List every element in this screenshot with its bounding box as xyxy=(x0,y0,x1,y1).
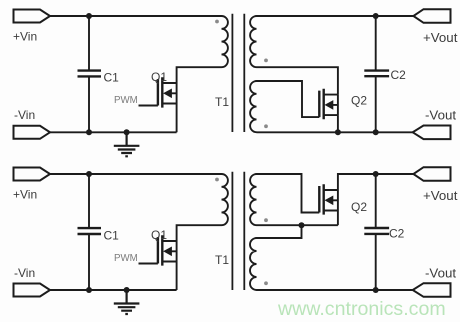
transformer T1 secondary upper winding (bottom) xyxy=(250,174,256,225)
wire +Vin rail (bottom) xyxy=(50,173,222,175)
wire C1 top lead xyxy=(88,16,90,70)
wire Q2 drain to +Vout rail (bottom) xyxy=(338,174,414,190)
wire Q2 source to -Vout rail xyxy=(337,115,339,132)
svg-text:+Vin: +Vin xyxy=(13,187,37,201)
wire secondary lower top to center tap (bottom) xyxy=(257,225,302,238)
wire C2 bottom lead (top) xyxy=(375,76,377,132)
wire +Vin rail (top) xyxy=(50,15,222,17)
junction node ground/-Vin rail (bottom) xyxy=(124,287,130,293)
junction node on +Vin rail (bottom) xyxy=(86,171,92,177)
connector -Vin (top) xyxy=(14,126,51,139)
wire -Vout rail (top) xyxy=(257,131,413,133)
wire Q1 source to -Vin rail xyxy=(176,104,178,133)
transformer T1 secondary lower winding (top) xyxy=(250,81,256,132)
wire T1 primary bottom to Q1 drain xyxy=(177,67,222,83)
transistor Q1 (bottom) xyxy=(158,235,177,265)
phase dot T1 secondary lower (top) xyxy=(264,124,268,128)
svg-text:+Vin: +Vin xyxy=(13,29,37,43)
wire T1 primary bottom to Q1 drain (bottom) xyxy=(177,225,222,241)
wire C2 top lead (bottom) xyxy=(375,174,377,228)
phase dot T1 secondary upper (top) xyxy=(264,59,268,63)
capacitor C1 (bottom) xyxy=(78,228,102,234)
junction node C2/-Vout rail xyxy=(373,129,379,135)
wire T1 secondary lower top to Q2 gate xyxy=(257,81,320,117)
ground symbol (top) xyxy=(114,132,140,156)
transformer T1 secondary upper winding (top) xyxy=(250,16,256,67)
svg-text:T1: T1 xyxy=(215,95,229,109)
svg-text:C2: C2 xyxy=(391,68,407,82)
connector +Vin (bottom) xyxy=(14,168,51,181)
junction node C2/-Vout rail (bottom) xyxy=(373,287,379,293)
svg-text:PWM: PWM xyxy=(114,95,138,106)
phase dot T1 primary (top) xyxy=(215,20,219,24)
capacitor C2 (top) xyxy=(364,71,389,77)
svg-text:PWM: PWM xyxy=(114,253,138,264)
svg-text:C2: C2 xyxy=(389,227,405,241)
phase dot T1 secondary upper (bottom) xyxy=(264,218,268,222)
wire C2 bottom lead (bottom) xyxy=(375,234,377,290)
phase dot T1 secondary lower (bottom) xyxy=(264,281,268,285)
connector -Vin (bottom) xyxy=(14,284,51,297)
svg-text:-Vin: -Vin xyxy=(14,266,35,280)
svg-text:+Vout: +Vout xyxy=(423,30,458,45)
junction node C1/-Vin rail xyxy=(86,129,92,135)
svg-text:Q1: Q1 xyxy=(151,228,167,242)
svg-text:+Vout: +Vout xyxy=(423,188,458,203)
junction node on +Vin rail xyxy=(86,13,92,19)
svg-text:C1: C1 xyxy=(104,229,120,243)
transistor Q1 (top) xyxy=(158,77,177,107)
wire T1 secondary upper bottom to Q2 drain xyxy=(257,67,338,94)
wire -Vin rail (top) xyxy=(50,131,177,133)
wire C1 top lead (bottom) xyxy=(88,174,90,228)
svg-text:-Vout: -Vout xyxy=(425,108,456,123)
connector +Vout (top) xyxy=(413,9,450,23)
wire secondary upper bottom / center tap (bottom) xyxy=(257,224,338,226)
svg-text:Q2: Q2 xyxy=(351,200,367,214)
svg-text:T1: T1 xyxy=(215,253,229,267)
junction node C1/-Vin rail (bottom) xyxy=(86,287,92,293)
phase dot T1 primary (bottom) xyxy=(215,178,219,182)
junction node Q2 source rail xyxy=(335,129,341,135)
transistor Q2 (top) xyxy=(319,89,338,119)
wire Q2 source to winding junction (bottom) xyxy=(337,211,339,226)
junction node C2/+Vout rail (bottom) xyxy=(373,171,379,177)
transformer T1 primary winding (bottom) xyxy=(222,174,228,225)
wire -Vin rail (bottom) xyxy=(50,289,177,291)
svg-text:C1: C1 xyxy=(104,71,120,85)
wire +Vout rail (top) xyxy=(257,15,414,17)
capacitor C1 (top) xyxy=(78,71,102,77)
wire -Vout rail (bottom) xyxy=(257,289,413,291)
svg-text:Q1: Q1 xyxy=(151,70,167,84)
transistor Q2 (bottom) xyxy=(319,184,338,214)
ground symbol (bottom) xyxy=(114,290,140,314)
transformer T1 primary winding (top) xyxy=(222,16,228,67)
svg-text:www.cntronics.com: www.cntronics.com xyxy=(277,298,446,320)
junction node center tap (bottom) xyxy=(299,222,305,228)
svg-text:Q2: Q2 xyxy=(351,94,367,108)
wire PWM to Q1 gate xyxy=(139,105,158,107)
connector +Vin (top) xyxy=(14,10,51,23)
junction node C2/+Vout rail xyxy=(373,13,379,19)
wire C2 top lead (top) xyxy=(375,16,377,70)
wire C1 bottom lead (bottom) xyxy=(88,234,90,290)
wire secondary top rail to Q2 gate (bottom) xyxy=(257,174,320,213)
connector -Vout (top) xyxy=(413,126,451,140)
wire PWM to Q1 gate (bottom) xyxy=(139,263,158,265)
transformer T1 core (top) xyxy=(232,14,244,132)
connector +Vout (bottom) xyxy=(413,167,450,181)
transformer T1 secondary lower winding (bottom) xyxy=(250,238,256,290)
svg-text:-Vout: -Vout xyxy=(425,266,456,281)
transformer T1 core (bottom) xyxy=(232,172,244,290)
svg-text:-Vin: -Vin xyxy=(14,108,35,122)
connector -Vout (bottom) xyxy=(413,283,451,297)
wire C1 bottom lead xyxy=(88,77,90,133)
capacitor C2 (bottom) xyxy=(364,228,389,234)
wire Q1 source to -Vin rail (bottom) xyxy=(176,262,178,291)
junction node ground/-Vin rail xyxy=(124,129,130,135)
